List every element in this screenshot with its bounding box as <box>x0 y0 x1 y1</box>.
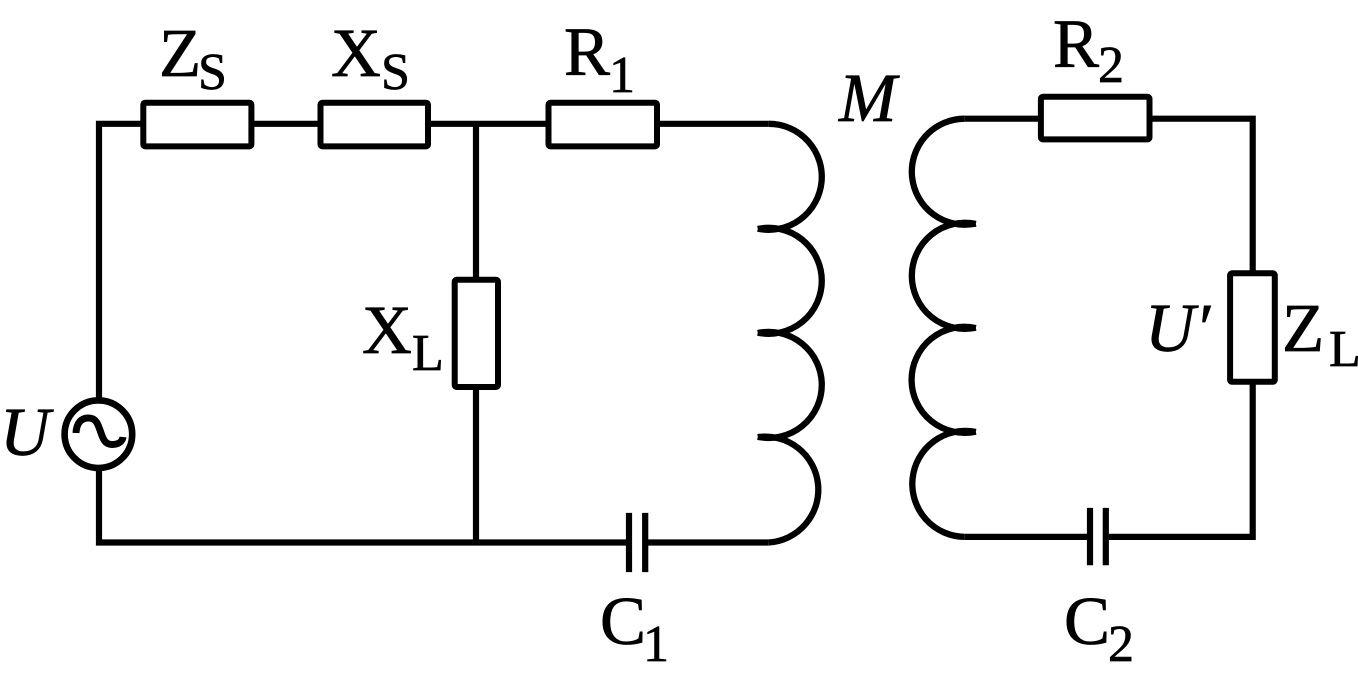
source U sine symbol <box>76 418 123 445</box>
svg-text:1: 1 <box>609 47 635 104</box>
svg-text:X: X <box>362 292 412 368</box>
wire ZL bottom to bottom-right corner to C2 <box>1109 384 1253 537</box>
wire secondary coil top to R2 <box>965 116 1039 122</box>
svg-text:S: S <box>381 44 410 101</box>
svg-text:2: 2 <box>1108 616 1134 673</box>
svg-text:Z: Z <box>159 15 201 91</box>
inductor L2 secondary coil <box>912 119 976 537</box>
svg-text:Z: Z <box>1282 290 1324 366</box>
svg-text:X: X <box>331 15 381 91</box>
source U circle <box>65 400 133 468</box>
wire left vertical lower + bottom rail to C1 <box>99 470 626 543</box>
wire XL bottom to bottom rail <box>473 389 479 543</box>
wire top between ZS and XS <box>253 121 319 127</box>
wire bottom rail C2 to secondary coil <box>965 534 1087 540</box>
wire top between R1 and primary coil <box>659 121 769 127</box>
svg-text:L: L <box>1329 321 1358 378</box>
wire left vertical upper (source top to top-left corner) <box>99 124 143 400</box>
svg-text:R: R <box>564 14 610 90</box>
resistor R1 box <box>549 103 658 147</box>
resistor R2 box <box>1041 97 1150 140</box>
svg-text:M: M <box>838 60 900 136</box>
inductor L1 primary coil <box>758 124 822 543</box>
wire bottom rail C1 to primary coil <box>648 539 769 545</box>
svg-text:1: 1 <box>643 616 669 673</box>
svg-text:U: U <box>0 394 54 470</box>
resistor ZL box <box>1230 273 1275 382</box>
svg-text:U′: U′ <box>1145 290 1211 366</box>
wire R2 to top-right corner down to ZL <box>1152 119 1253 271</box>
wire node branch down to XL <box>473 124 479 278</box>
resistor ZS box <box>143 103 251 147</box>
svg-text:2: 2 <box>1098 37 1124 94</box>
svg-text:C: C <box>1064 583 1110 659</box>
svg-text:C: C <box>600 583 646 659</box>
capacitor C1 plates <box>629 513 645 572</box>
svg-text:S: S <box>198 44 227 101</box>
svg-text:L: L <box>412 325 444 382</box>
wire top between XS and R1 (through node) <box>430 121 547 127</box>
capacitor C2 plates <box>1090 508 1106 565</box>
svg-text:R: R <box>1053 6 1099 82</box>
resistor XS box <box>321 103 429 147</box>
resistor XL box <box>455 280 498 387</box>
